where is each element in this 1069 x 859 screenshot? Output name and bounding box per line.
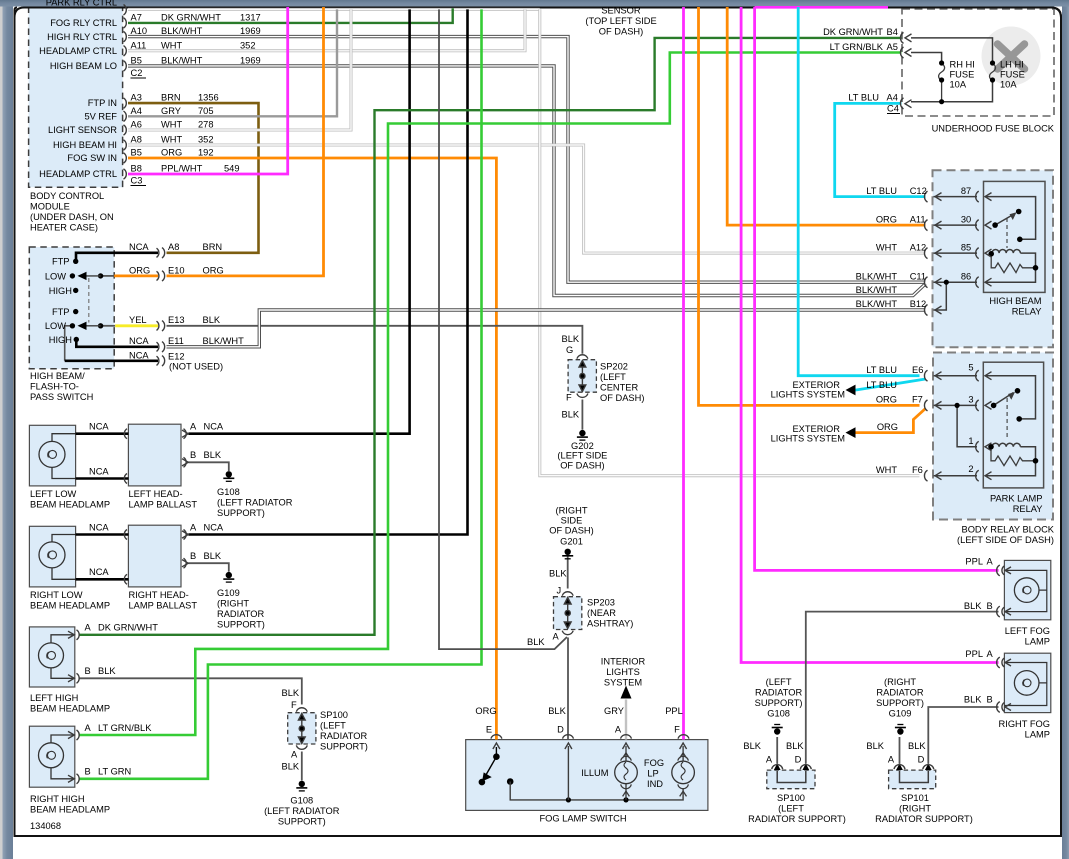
svg-text:87: 87 — [961, 186, 971, 196]
wire LT BLU fuse A4 to relay C12 — [835, 103, 926, 196]
svg-text:SUPPORT): SUPPORT) — [320, 742, 368, 752]
svg-text:(UNDER DASH, ON: (UNDER DASH, ON — [30, 212, 114, 222]
wire left high lamp leads — [51, 635, 75, 679]
svg-text:SENSOR: SENSOR — [601, 6, 641, 16]
svg-text:A8: A8 — [131, 135, 142, 145]
BCM left pin name labels — [39, 0, 117, 179]
svg-text:NCA: NCA — [129, 242, 149, 252]
underhood fuse block box — [902, 9, 1054, 116]
svg-text:10A: 10A — [1000, 80, 1017, 90]
high beam lamp pin arrowheads — [68, 631, 74, 782]
splice SP202 box — [568, 360, 596, 393]
C2 underline — [131, 77, 147, 79]
right high beam headlamp box — [29, 726, 74, 787]
wire right ballast B BLK to G109 — [188, 563, 228, 572]
right fog lamp box — [1004, 653, 1050, 712]
svg-text:A4: A4 — [131, 106, 142, 116]
ground G109 (right ballast) — [223, 572, 234, 582]
svg-text:HEATER CASE): HEATER CASE) — [30, 223, 98, 233]
fog switch E contact blade — [479, 747, 513, 785]
BCM box label — [30, 191, 114, 233]
park lamp relay row labels — [866, 363, 1042, 515]
svg-text:G108: G108 — [217, 487, 240, 497]
svg-text:LT BLU: LT BLU — [866, 186, 897, 196]
SENSOR label — [585, 6, 656, 37]
svg-text:G108: G108 — [767, 709, 790, 719]
svg-text:A11: A11 — [131, 40, 147, 50]
park lamp relay inner box — [983, 362, 1043, 488]
SP101 bottom pin arcs — [894, 765, 934, 770]
ground G109 (bottom) — [895, 725, 906, 735]
svg-text:BLK: BLK — [204, 551, 222, 561]
svg-text:NCA: NCA — [89, 422, 109, 432]
svg-text:BLK: BLK — [203, 315, 221, 325]
svg-text:(LEFT: (LEFT — [600, 372, 626, 382]
svg-text:B: B — [85, 666, 91, 676]
svg-text:2: 2 — [968, 464, 973, 474]
park relay armature dashed — [1006, 398, 1008, 440]
park relay resistor — [991, 448, 1036, 466]
svg-text:1356: 1356 — [198, 93, 219, 103]
fog lamp switch box — [466, 740, 708, 811]
high beam / flash-to-pass switch box — [29, 247, 114, 369]
svg-text:OF DASH): OF DASH) — [549, 526, 593, 536]
svg-text:RADIATOR SUPPORT): RADIATOR SUPPORT) — [875, 814, 973, 824]
right headlamp ballast box — [128, 525, 181, 587]
svg-text:SP100: SP100 — [777, 793, 805, 803]
svg-text:B: B — [987, 601, 993, 611]
wire right ballast A NCA up to top — [188, 9, 467, 534]
svg-text:5: 5 — [968, 363, 973, 373]
svg-text:D: D — [918, 755, 925, 765]
svg-text:(LEFT RADIATOR: (LEFT RADIATOR — [264, 806, 340, 816]
lamp symbol left low beam — [39, 441, 65, 467]
svg-text:LT GRN/BLK: LT GRN/BLK — [98, 723, 152, 733]
svg-text:BLK/WHT: BLK/WHT — [856, 271, 898, 281]
svg-text:A: A — [987, 557, 994, 567]
wire left low lamp to ballast row A — [76, 432, 129, 435]
svg-text:BLK: BLK — [743, 741, 761, 751]
fog lamp pin arcs left fog — [997, 565, 1005, 617]
left low beam headlamp box — [29, 425, 75, 486]
svg-text:BLK: BLK — [562, 334, 580, 344]
svg-text:HIGH BEAM HI: HIGH BEAM HI — [53, 140, 117, 150]
svg-text:(LEFT: (LEFT — [778, 803, 804, 813]
park relay coil — [992, 443, 1036, 460]
wire right low lamp to ballast rows — [76, 535, 129, 580]
park relay 5 contact path — [985, 376, 1036, 419]
switch wiper arrow group2 — [79, 325, 101, 327]
svg-text:A7: A7 — [131, 12, 142, 22]
high beam relay coil — [992, 250, 1036, 267]
svg-text:DK GRN/WHT: DK GRN/WHT — [823, 27, 883, 37]
wire ORG E10 switch LOW out — [101, 275, 115, 277]
relay outer arc arrows park lamp — [935, 372, 942, 480]
svg-text:LT GRN: LT GRN — [98, 767, 131, 777]
svg-text:LOW: LOW — [45, 271, 66, 281]
svg-text:WHT: WHT — [161, 40, 182, 50]
wire LT BLU to park relay E6 — [798, 7, 919, 376]
frame left blue bar — [3, 0, 14, 859]
svg-text:LP: LP — [647, 769, 658, 779]
svg-text:PPL: PPL — [965, 557, 983, 567]
relay outer arcs (park lamp relay rows) — [924, 370, 927, 481]
svg-text:BLK/WHT: BLK/WHT — [856, 285, 898, 295]
svg-text:G202: G202 — [571, 441, 594, 451]
wire BLK right fog lamp to SP101 D — [928, 707, 998, 764]
svg-text:(LEFT: (LEFT — [766, 677, 792, 687]
svg-text:HIGH BEAM/: HIGH BEAM/ — [30, 371, 85, 381]
park relay pin stubs 5/3/2 — [934, 376, 978, 476]
svg-text:NCA: NCA — [89, 522, 109, 532]
G201 / SP203 labels — [527, 506, 633, 648]
svg-text:PASS SWITCH: PASS SWITCH — [30, 392, 93, 402]
svg-text:BLK/WHT: BLK/WHT — [161, 55, 203, 65]
splice SP203 internals — [564, 598, 571, 629]
svg-text:E12: E12 — [168, 351, 185, 361]
svg-text:B: B — [987, 694, 993, 704]
svg-text:E10: E10 — [168, 265, 185, 275]
svg-text:A: A — [888, 755, 895, 765]
svg-text:F: F — [674, 725, 680, 735]
svg-text:G108: G108 — [290, 796, 313, 806]
BCM C2 wire row labels — [131, 12, 261, 78]
wire left ballast A NCA up to top — [188, 9, 409, 433]
wire NCA E12 (NOT USED) — [65, 326, 73, 361]
svg-text:ORG: ORG — [475, 706, 496, 716]
svg-text:DK GRN/WHT: DK GRN/WHT — [161, 12, 221, 22]
svg-text:A12: A12 — [910, 242, 927, 252]
svg-text:J: J — [557, 586, 562, 596]
wire YEL E13 BLK to SP202 — [101, 325, 116, 327]
svg-text:B4: B4 — [887, 27, 898, 37]
svg-text:SP202: SP202 — [600, 362, 628, 372]
svg-text:30: 30 — [961, 214, 971, 224]
BCM pin arcs C2 connector — [124, 5, 127, 72]
splice SP203 box — [554, 597, 582, 630]
wire PPL to left fog lamp — [755, 7, 999, 570]
relay pin arrows high beam — [985, 193, 992, 287]
svg-text:RIGHT FOG: RIGHT FOG — [999, 719, 1050, 729]
svg-text:BEAM HEADLAMP: BEAM HEADLAMP — [30, 601, 110, 611]
svg-text:LIGHTS: LIGHTS — [606, 667, 640, 677]
relay pin arrows park lamp — [985, 372, 992, 480]
svg-text:FOG: FOG — [644, 758, 664, 768]
high beam relay blade arrowhead — [1010, 212, 1017, 220]
svg-text:OF DASH): OF DASH) — [560, 460, 604, 470]
BCM pin arcs C3 connector — [124, 98, 127, 179]
svg-text:A: A — [85, 623, 92, 633]
fog switch pin labels — [475, 706, 682, 735]
svg-text:FOG RLY CTRL: FOG RLY CTRL — [50, 18, 117, 28]
svg-text:ORG: ORG — [129, 265, 150, 275]
fog switch D internal drop — [567, 746, 569, 800]
svg-text:F: F — [291, 700, 297, 710]
wire left ballast B BLK to G108 — [188, 462, 228, 471]
svg-text:E11: E11 — [168, 336, 184, 346]
wire G109 to SP101 A — [899, 737, 901, 764]
svg-text:RADIATOR: RADIATOR — [217, 609, 264, 619]
switch box label — [30, 371, 93, 402]
wire right low lamp leads — [52, 535, 76, 580]
high beam relay 87 contact path — [985, 197, 1036, 240]
svg-text:D: D — [795, 755, 802, 765]
park lamp relay dashed box — [933, 353, 1053, 520]
lamp symbol right low beam — [39, 542, 65, 568]
svg-text:E6: E6 — [912, 365, 923, 375]
svg-text:OF DASH): OF DASH) — [599, 27, 643, 37]
svg-text:B12: B12 — [910, 299, 927, 309]
splice SP101 bottom U link — [900, 771, 929, 783]
wire B5 ORG 192 (FOG SW IN) to fog switch E — [128, 158, 496, 740]
svg-text:(LEFT SIDE: (LEFT SIDE — [557, 451, 607, 461]
svg-text:3: 3 — [968, 395, 973, 405]
svg-text:C2: C2 — [131, 68, 143, 78]
svg-text:LOW: LOW — [45, 321, 66, 331]
svg-text:NCA: NCA — [204, 522, 224, 532]
high beam lamp pin arcs — [77, 630, 80, 784]
svg-text:YEL: YEL — [129, 315, 147, 325]
fuse block internal wiring C4 — [911, 82, 993, 102]
svg-text:BLK: BLK — [98, 666, 116, 676]
svg-text:C4: C4 — [887, 104, 899, 114]
svg-text:HEADLAMP CTRL: HEADLAMP CTRL — [39, 46, 117, 56]
svg-text:A: A — [190, 422, 197, 432]
relay inner arcs (park lamp relay) — [976, 370, 979, 481]
svg-text:LIGHTS SYSTEM: LIGHTS SYSTEM — [771, 390, 845, 400]
svg-text:UNDERHOOD FUSE BLOCK: UNDERHOOD FUSE BLOCK — [932, 124, 1055, 134]
svg-text:ORG: ORG — [203, 265, 224, 275]
svg-text:NCA: NCA — [204, 422, 224, 432]
wire left high beam B BLK to SP100 — [80, 678, 302, 704]
high beam relay dots — [944, 209, 1039, 285]
interior lights labels — [601, 657, 646, 688]
svg-text:RADIATOR SUPPORT): RADIATOR SUPPORT) — [748, 814, 846, 824]
svg-text:FOG LAMP SWITCH: FOG LAMP SWITCH — [539, 813, 626, 823]
svg-text:PPL: PPL — [965, 649, 983, 659]
svg-text:SP100: SP100 — [320, 710, 348, 720]
left high beam headlamp box — [29, 627, 74, 687]
svg-text:A: A — [190, 522, 197, 532]
svg-text:IND: IND — [647, 779, 663, 789]
switch pin labels — [45, 257, 72, 346]
svg-text:352: 352 — [198, 135, 214, 145]
body relay block labels — [957, 525, 1055, 546]
content top border redraw — [15, 8, 1062, 18]
svg-text:LT BLU: LT BLU — [848, 93, 879, 103]
high beam relay switch blade — [996, 214, 1015, 225]
svg-text:BLK: BLK — [964, 601, 982, 611]
svg-text:FUSE: FUSE — [1000, 70, 1025, 80]
svg-text:LAMP: LAMP — [1025, 730, 1050, 740]
wire NCA A8 BRN switch FTP feed — [76, 253, 158, 261]
close button — [982, 27, 1041, 86]
svg-text:A6: A6 — [131, 120, 142, 130]
switch FTP/LOW/HIGH dots group1 — [70, 259, 104, 294]
wire BLK left fog lamp to SP100 D — [806, 612, 999, 764]
svg-text:RH HI: RH HI — [950, 60, 975, 70]
svg-text:RELAY: RELAY — [1012, 306, 1042, 316]
high beam relay armature dashed — [1006, 218, 1008, 248]
wire switch wiper dashed link — [88, 278, 90, 323]
wire A10 BLK/WHT 1969 to relay C11 — [128, 37, 926, 283]
left headlamp ballast box — [128, 424, 181, 486]
ground G201 — [562, 549, 573, 559]
svg-text:RADIATOR: RADIATOR — [320, 731, 367, 741]
svg-text:LEFT HEAD-: LEFT HEAD- — [129, 489, 183, 499]
G109 bottom labels — [866, 677, 972, 824]
svg-text:BLK/WHT: BLK/WHT — [856, 299, 898, 309]
SP100 bottom pin arcs — [772, 765, 812, 770]
high beam relay 86 path — [985, 269, 1036, 282]
fuse RH HI 10A — [939, 64, 945, 102]
svg-text:FTP: FTP — [52, 257, 70, 267]
svg-text:BLK: BLK — [527, 637, 545, 647]
ground G108 (SP100 left) — [296, 781, 307, 791]
svg-text:1969: 1969 — [240, 55, 261, 65]
svg-text:BEAM HEADLAMP: BEAM HEADLAMP — [30, 704, 110, 714]
svg-text:NCA: NCA — [129, 336, 149, 346]
svg-text:NCA: NCA — [89, 567, 109, 577]
lamp symbol left high beam — [39, 643, 64, 668]
svg-text:G201: G201 — [560, 537, 583, 547]
svg-text:NCA: NCA — [129, 350, 149, 360]
fog switch lamp connector arcs — [621, 753, 689, 797]
ground G108 (bottom) — [772, 725, 783, 735]
wire B5 BLK/WHT 1969 (HIGH BEAM LO) to relay C11 via diagonal — [128, 66, 926, 296]
svg-text:B5: B5 — [131, 55, 142, 65]
exterior lights system arrow (ORG) — [846, 427, 856, 438]
svg-text:SUPPORT): SUPPORT) — [876, 698, 924, 708]
wire left high beam A DK GRN/WHT to fuse block B4 — [80, 38, 902, 635]
wire ORG to park relay F7 — [699, 7, 920, 405]
interior lights system arrow — [621, 686, 632, 699]
svg-text:B: B — [190, 450, 196, 460]
right low beam labels — [30, 522, 265, 629]
ground G108 (left ballast) — [223, 471, 234, 481]
wire LT BLU E6 exterior lights branch — [849, 379, 926, 390]
svg-text:ORG: ORG — [876, 395, 897, 405]
wire PPL F vertical to fog switch — [682, 7, 685, 740]
svg-text:GRY: GRY — [161, 106, 181, 116]
C4 underline — [887, 113, 900, 115]
svg-text:BEAM HEADLAMP: BEAM HEADLAMP — [30, 500, 110, 510]
SP100 left labels — [264, 688, 368, 827]
svg-text:BODY CONTROL: BODY CONTROL — [30, 191, 104, 201]
svg-text:RADIATOR: RADIATOR — [876, 688, 923, 698]
relay outer arc arrows high beam — [935, 193, 942, 314]
fuse block internal wiring B4 — [911, 38, 993, 62]
svg-text:RIGHT HIGH: RIGHT HIGH — [30, 794, 85, 804]
high beam relay row labels — [856, 186, 1042, 316]
relay inner arcs (high beam relay) — [976, 191, 979, 288]
svg-text:G109: G109 — [889, 709, 912, 719]
wire SP202 F to G202 — [581, 400, 583, 430]
svg-text:WHT: WHT — [876, 465, 897, 475]
svg-text:HIGH BEAM: HIGH BEAM — [989, 296, 1041, 306]
svg-text:C11: C11 — [910, 271, 926, 281]
svg-text:(RIGHT: (RIGHT — [555, 506, 587, 516]
high beam relay B12 stub and link to 86 — [934, 282, 947, 310]
svg-text:RADIATOR: RADIATOR — [755, 688, 802, 698]
fog lamp right internals — [1004, 663, 1046, 706]
svg-text:BLK/WHT: BLK/WHT — [161, 26, 203, 36]
svg-text:A11: A11 — [910, 214, 926, 224]
left fog lamp box — [1004, 560, 1050, 619]
svg-text:DK GRN/WHT: DK GRN/WHT — [98, 623, 158, 633]
svg-text:LIGHT SENSOR: LIGHT SENSOR — [48, 125, 117, 135]
ballast input arcs — [124, 429, 127, 585]
svg-text:A5: A5 — [887, 42, 898, 52]
svg-text:BLK/WHT: BLK/WHT — [203, 336, 245, 346]
body control module (BCM) box — [29, 7, 123, 188]
fog switch ILLUM lamp — [615, 746, 638, 800]
wire PPL to right fog lamp — [741, 7, 998, 663]
svg-text:1969: 1969 — [240, 26, 261, 36]
lamp symbol right high beam — [39, 743, 64, 768]
relay outer arcs (high beam relay rows) — [924, 191, 927, 315]
svg-text:BRN: BRN — [203, 242, 223, 252]
svg-text:A10: A10 — [131, 26, 148, 36]
svg-text:MODULE: MODULE — [30, 202, 70, 212]
svg-text:A: A — [291, 750, 298, 760]
fog switch FOG LP IND lamp — [672, 746, 695, 784]
svg-text:WHT: WHT — [161, 120, 182, 130]
svg-text:ORG: ORG — [877, 422, 898, 432]
svg-text:PARK RLY CTRL: PARK RLY CTRL — [46, 0, 117, 8]
fog switch pin arrows — [493, 743, 687, 749]
switch FTP/LOW/HIGH dots group2 — [70, 309, 104, 342]
svg-text:BRN: BRN — [161, 93, 181, 103]
svg-text:E13: E13 — [168, 315, 185, 325]
svg-text:LEFT FOG: LEFT FOG — [1005, 626, 1050, 636]
svg-text:GRY: GRY — [604, 706, 624, 716]
fog switch bus junction dots — [566, 797, 629, 802]
splice SP101 box (bottom) — [889, 770, 936, 789]
svg-text:BLK: BLK — [282, 688, 300, 698]
park relay switch blade — [995, 393, 1014, 405]
high beam relay pin stubs 87/30/85/86 — [934, 197, 978, 283]
SP100 left pin arcs — [296, 708, 307, 750]
svg-text:FOG SW IN: FOG SW IN — [67, 153, 117, 163]
svg-text:192: 192 — [198, 148, 214, 158]
wire left low lamp leads — [52, 434, 76, 479]
svg-text:D: D — [557, 725, 564, 735]
svg-text:5V REF: 5V REF — [84, 112, 117, 122]
svg-text:BLK: BLK — [204, 450, 222, 460]
svg-text:1317: 1317 — [240, 12, 261, 22]
svg-text:ILLUM: ILLUM — [581, 768, 608, 778]
SP202 pin arcs — [577, 355, 588, 398]
left fog lamp labels — [964, 557, 1050, 647]
svg-text:SUPPORT): SUPPORT) — [755, 698, 803, 708]
svg-text:BLK: BLK — [866, 741, 884, 751]
svg-text:BLK: BLK — [549, 569, 567, 579]
svg-text:C12: C12 — [910, 186, 927, 196]
svg-text:SYSTEM: SYSTEM — [604, 678, 642, 688]
svg-text:F6: F6 — [912, 465, 923, 475]
splice SP100 box (left radiator, mid-left) — [288, 713, 316, 744]
svg-text:LEFT HIGH: LEFT HIGH — [30, 693, 78, 703]
svg-text:85: 85 — [961, 242, 971, 252]
park relay 2 path — [985, 462, 1036, 476]
svg-text:HIGH BEAM LO: HIGH BEAM LO — [50, 61, 117, 71]
svg-text:LAMP BALLAST: LAMP BALLAST — [129, 601, 198, 611]
SP203 pin arcs — [562, 592, 573, 635]
G108 bottom labels — [743, 677, 845, 824]
svg-text:SP101: SP101 — [901, 793, 929, 803]
frame left outer strip — [0, 0, 3, 859]
